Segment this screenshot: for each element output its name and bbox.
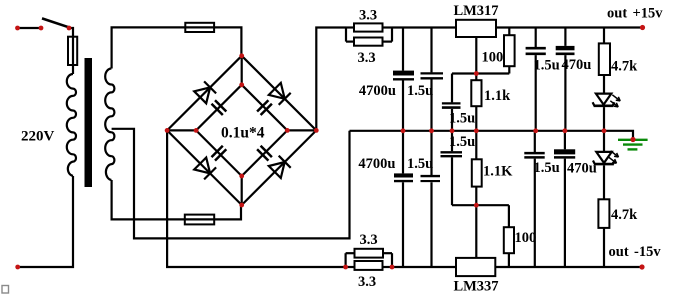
wire LM317 output rail xyxy=(496,26,644,28)
svg-text:4700u: 4700u xyxy=(358,156,395,172)
resistor R3 3.3 bottom parallel xyxy=(346,249,392,267)
svg-text:470u: 470u xyxy=(567,161,597,177)
wire node top corner to inner top xyxy=(241,56,243,85)
wire AC input to switch xyxy=(18,27,42,29)
node inner bottom xyxy=(239,174,244,179)
node bridge right xyxy=(314,128,319,133)
capacitor C13 1.5u output bottom xyxy=(524,131,544,267)
svg-text:out: out xyxy=(609,244,629,260)
wire ADJ node line bottom xyxy=(452,204,509,206)
wire node right corner to inner right xyxy=(287,129,316,131)
capacitor C7 4700u bottom xyxy=(394,131,413,267)
node C11 at 0V rail xyxy=(533,128,538,133)
node switch throw xyxy=(67,26,72,31)
node inner left xyxy=(194,128,199,133)
capacitor C12 470u output top xyxy=(556,28,575,131)
svg-text:1.1K: 1.1K xyxy=(483,164,513,180)
node R3 right xyxy=(390,265,395,270)
svg-text:1.1k: 1.1k xyxy=(484,88,511,104)
node LM317 ADJ xyxy=(474,71,479,76)
node inner top xyxy=(239,82,244,87)
resistor R5 100 xyxy=(504,28,515,74)
capacitor C2 0.1u top-right xyxy=(257,100,272,115)
svg-text:4.7k: 4.7k xyxy=(611,59,638,75)
capacitor C4 0.1u bottom-right xyxy=(257,146,272,161)
svg-text:0.1u*4: 0.1u*4 xyxy=(221,125,265,142)
node AC terminal 1 xyxy=(15,26,20,31)
node C9 at 0V rail xyxy=(450,128,455,133)
svg-text:LM317: LM317 xyxy=(453,3,498,19)
wire 0V middle rail xyxy=(350,131,634,140)
wire node left corner to inner left xyxy=(167,129,196,131)
LED LED1 xyxy=(593,94,621,131)
diode D1 top-left xyxy=(194,81,216,103)
capacitor C9 1.5u ADJ top xyxy=(442,74,461,131)
capacitor C10 1.5u ADJ bottom xyxy=(441,131,463,205)
resistor R9 4.7k xyxy=(599,28,610,94)
node switch pole xyxy=(39,26,44,31)
switch S1 blade xyxy=(42,18,69,27)
wire node bottom corner to inner bottom xyxy=(241,176,243,205)
wire LM337 output rail xyxy=(495,266,643,268)
resistor R2 3.3 parallel xyxy=(346,28,392,46)
capacitor C1 0.1u top-left xyxy=(212,100,227,115)
node bridge left xyxy=(165,128,170,133)
svg-text:1.5u: 1.5u xyxy=(449,134,475,150)
wire top rail to LM317 input xyxy=(392,26,456,28)
fuse F2 xyxy=(185,23,214,32)
node out minus terminal xyxy=(639,264,644,269)
svg-text:+15v: +15v xyxy=(633,5,664,21)
svg-text:3.3: 3.3 xyxy=(359,7,377,23)
svg-text:3.3: 3.3 xyxy=(359,232,377,248)
node AC terminal 2 xyxy=(15,265,20,270)
corner artifact glyph xyxy=(2,286,9,294)
wire LM337 ADJ pin xyxy=(475,205,477,258)
wire bottom rail to LM337 xyxy=(392,266,456,268)
wire LM317 ADJ pin xyxy=(475,37,477,74)
transformer T1 secondary winding xyxy=(105,69,114,181)
wire bridge minus output down to bottom rail xyxy=(167,130,346,267)
svg-text:220V: 220V xyxy=(21,129,55,145)
svg-text:4.7k: 4.7k xyxy=(611,207,638,223)
svg-text:470u: 470u xyxy=(562,57,592,73)
diode D3 bottom-left xyxy=(194,158,216,180)
svg-text:100: 100 xyxy=(515,230,537,246)
wire secondary top to bridge AC top xyxy=(112,27,242,68)
wire primary bottom to AC terminal xyxy=(18,176,73,267)
node C5 at 0V rail xyxy=(401,128,406,133)
node R6 at 0V rail xyxy=(474,128,479,133)
resistor R4 3.3 bottom xyxy=(346,261,392,270)
capacitor C5 4700u xyxy=(393,28,414,131)
resistor R6 1.1k xyxy=(471,74,481,131)
bridge inner diamond xyxy=(196,85,287,176)
capacitor C14 470u output bottom xyxy=(554,131,575,267)
resistor R10 4.7k bottom xyxy=(598,199,609,267)
node R3 left xyxy=(343,265,348,270)
node out plus terminal xyxy=(640,25,645,30)
node inner right xyxy=(285,128,290,133)
svg-text:3.3: 3.3 xyxy=(358,274,376,290)
resistor R7 1.1K xyxy=(472,131,482,205)
transformer T1 core xyxy=(85,58,93,187)
svg-text:-15v: -15v xyxy=(634,244,661,260)
svg-text:1.5u: 1.5u xyxy=(407,83,433,99)
capacitor C8 1.5u bottom xyxy=(421,131,441,267)
svg-text:1.5u: 1.5u xyxy=(449,111,475,127)
fuse F1 xyxy=(68,37,77,65)
wire ADJ node line top xyxy=(452,72,509,74)
wire switch to fuse F1 xyxy=(69,28,73,74)
capacitor C3 0.1u bottom-left xyxy=(212,146,227,161)
regulator U1 LM317 xyxy=(456,20,496,37)
svg-text:1.5u: 1.5u xyxy=(534,58,560,74)
node bridge bottom xyxy=(239,203,244,208)
svg-text:3.3: 3.3 xyxy=(357,50,375,66)
resistor R8 100 xyxy=(504,205,514,267)
svg-text:4700u: 4700u xyxy=(359,83,396,99)
node LED1 at 0V rail xyxy=(602,128,607,133)
ground symbol xyxy=(618,140,648,150)
node LM337 ADJ xyxy=(474,203,479,208)
LED LED2 xyxy=(593,131,619,200)
fuse F3 xyxy=(185,215,214,225)
diode D4 bottom-right xyxy=(269,156,291,178)
wire center tap to 0V rail xyxy=(112,129,350,239)
diode D2 top-right xyxy=(269,83,291,105)
capacitor C6 1.5u xyxy=(421,28,444,131)
wire bridge plus output to top rail xyxy=(316,28,346,131)
svg-text:LM337: LM337 xyxy=(453,279,498,295)
transformer T1 primary winding xyxy=(67,74,76,176)
svg-text:out: out xyxy=(607,5,627,21)
capacitor C11 1.5u output top xyxy=(526,28,546,131)
resistor R1 3.3 xyxy=(346,23,392,31)
svg-text:1.5u: 1.5u xyxy=(534,160,560,176)
node C6 at 0V rail xyxy=(429,128,434,133)
svg-text:100: 100 xyxy=(482,50,504,66)
svg-text:1.5u: 1.5u xyxy=(407,156,433,172)
node bridge top xyxy=(239,53,244,58)
regulator U2 LM337 xyxy=(456,258,495,276)
bridge outer diamond xyxy=(167,56,316,205)
node C12 at 0V rail xyxy=(563,128,568,133)
wire secondary bottom to bridge AC bottom xyxy=(112,180,241,219)
node ground xyxy=(630,137,635,142)
